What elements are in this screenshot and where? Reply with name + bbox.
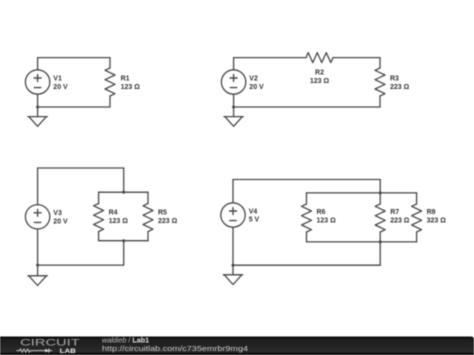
svg-text:123 Ω: 123 Ω [317,218,337,225]
wire [38,167,124,169]
svg-text:R3: R3 [390,76,399,83]
wire [307,241,417,243]
svg-text:R4: R4 [109,209,118,216]
resistor R2 [306,53,333,63]
resistor R1 [105,58,115,107]
wire [37,168,39,205]
wire [232,265,234,275]
svg-text:20 V: 20 V [249,84,264,91]
svg-text:V1: V1 [53,76,62,83]
wire [233,94,235,107]
svg-text:V3: V3 [53,210,62,217]
wire [99,240,148,242]
label R4 value [109,209,129,224]
node junction [232,106,235,109]
wire [38,106,110,108]
wire [234,57,306,59]
svg-text:V4: V4 [249,208,258,215]
label R1 value [121,76,141,91]
svg-text:123 Ω: 123 Ω [109,218,129,225]
svg-text:R5: R5 [158,209,167,216]
svg-text:223 Ω: 223 Ω [158,218,178,225]
resistor R5 [143,192,153,241]
svg-text:323 Ω: 323 Ω [427,218,447,225]
wire [333,57,380,59]
node junction [36,106,39,109]
wire [123,168,125,192]
svg-text:123 Ω: 123 Ω [310,78,330,85]
wire [307,192,417,194]
label V3 value [53,210,68,225]
resistor R4 [94,192,104,241]
footer bar [0,337,474,355]
label V4 value [249,208,260,223]
ground [224,117,243,127]
wire [233,179,380,181]
wire [37,229,39,265]
svg-text:20 V: 20 V [53,84,68,91]
node junction [232,264,235,267]
node junction [122,239,125,242]
label V2 value [249,76,264,91]
wire [233,107,235,117]
wire [123,241,125,265]
wire [38,264,124,266]
svg-text:http://circuitlab.com/c735emrb: http://circuitlab.com/c735emrbr9mg4 [102,344,248,353]
svg-text:CIRCUIT: CIRCUIT [20,337,80,347]
wire [379,180,381,193]
svg-text:223 Ω: 223 Ω [390,84,410,91]
voltage source V3 [25,205,49,229]
label R5 value [158,209,178,224]
label R2 value [310,70,330,85]
svg-text:R8: R8 [427,209,436,216]
wire [37,107,39,117]
label R7 value [390,209,410,224]
resistor R3 [375,58,385,107]
svg-text:R2: R2 [315,70,324,77]
label R3 value [390,76,410,91]
svg-text:LAB: LAB [60,348,77,355]
label V1 value [53,76,68,91]
svg-text:123 Ω: 123 Ω [121,84,141,91]
node junction [379,191,382,194]
label R8 value [427,209,447,224]
svg-text:V2: V2 [249,76,258,83]
wire [234,106,380,108]
node junction [122,191,125,194]
label R6 value [317,209,337,224]
wire [38,57,110,59]
resistor R7 [375,193,385,242]
wire [99,191,148,193]
svg-text:R7: R7 [390,209,399,216]
voltage source V1 [25,70,49,94]
ground [28,117,47,127]
resistor R6 [302,193,312,242]
voltage source V4 [221,203,245,227]
logo diode [45,349,52,353]
node junction [379,240,382,243]
wire [233,264,380,266]
resistor R8 [412,193,422,242]
wire [232,180,234,203]
wire [233,58,235,70]
svg-text:5 V: 5 V [249,217,260,224]
ground [223,275,242,285]
logo resistor zigzag [17,349,48,352]
wire [232,227,234,265]
wire [37,265,39,276]
voltage source V2 [221,70,245,94]
svg-text:R1: R1 [121,76,130,83]
ground [28,276,47,286]
svg-text:20 V: 20 V [53,219,68,226]
wire [37,94,39,107]
svg-text:223 Ω: 223 Ω [390,218,410,225]
svg-text:R6: R6 [317,209,326,216]
wire [37,58,39,70]
node junction [36,264,39,267]
wire [379,242,381,265]
